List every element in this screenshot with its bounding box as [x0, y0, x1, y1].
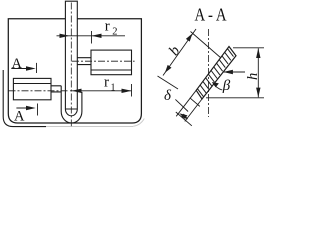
section arrowhead top	[26, 66, 36, 71]
b dimension line	[163, 29, 196, 76]
beta arrowhead	[223, 70, 233, 74]
svg-text:δ: δ	[164, 88, 172, 104]
right blade block	[91, 50, 132, 75]
r1 right arrowhead	[122, 89, 132, 93]
tank outline	[8, 19, 141, 123]
delta leader from glyph	[175, 99, 188, 111]
dimension r2 line	[57, 35, 126, 37]
svg-text:A: A	[14, 108, 25, 124]
left blade block	[13, 78, 51, 99]
h arrowhead bottom	[256, 88, 260, 98]
svg-text:b: b	[166, 43, 184, 59]
r2 extension tick	[91, 31, 93, 44]
beta angle arc	[213, 82, 223, 90]
beta horizontal reference line	[223, 71, 245, 73]
b arrowhead bottom	[165, 65, 172, 73]
delta lower face extension	[185, 99, 202, 121]
section arrowhead bottom	[26, 106, 36, 111]
delta dimension line outer	[176, 112, 192, 126]
b extension line bottom	[158, 76, 179, 89]
delta arrowhead lower-right	[181, 114, 188, 120]
bearing cup	[61, 86, 82, 123]
r1 left arrowhead	[72, 89, 82, 93]
h extension line bottom	[206, 97, 264, 99]
section vertical centerline	[208, 29, 210, 117]
section arrow top	[11, 63, 36, 73]
svg-text:β: β	[222, 78, 231, 94]
hatching	[197, 49, 233, 97]
blade cross-section bar	[196, 47, 236, 100]
delta dimension line near cap	[190, 98, 200, 107]
r2 right arrowhead	[92, 34, 102, 38]
svg-text:1: 1	[111, 82, 116, 93]
shaft	[65, 1, 77, 116]
tank outer wall echo bottom-left	[3, 70, 46, 127]
svg-text:A: A	[12, 56, 23, 72]
shaft centerline	[70, 3, 72, 129]
left blade edge line	[13, 83, 51, 85]
right arm	[77, 58, 91, 65]
section arrow bottom	[16, 104, 37, 116]
delta upper face extension	[176, 90, 196, 116]
beta arc arrowhead	[212, 82, 219, 87]
r2 left arrowhead	[60, 34, 70, 38]
left arm	[51, 86, 61, 92]
delta arrowhead upper-left	[179, 113, 187, 119]
h dimension line	[257, 48, 259, 97]
h extension line top	[233, 47, 264, 49]
right blade edge line	[91, 69, 132, 71]
svg-text:r: r	[104, 75, 109, 91]
svg-text:2: 2	[112, 26, 117, 37]
b extension line top	[191, 32, 222, 59]
h arrowhead top	[256, 48, 260, 58]
svg-text:h: h	[245, 73, 261, 80]
svg-text:r: r	[105, 19, 110, 35]
left blade centerline	[9, 90, 69, 92]
dimension r1 line	[70, 90, 132, 92]
r1 extension tick	[131, 84, 133, 97]
svg-text:A - A: A - A	[195, 5, 227, 25]
b arrowhead top	[186, 33, 193, 41]
right blade centerline	[72, 60, 135, 62]
